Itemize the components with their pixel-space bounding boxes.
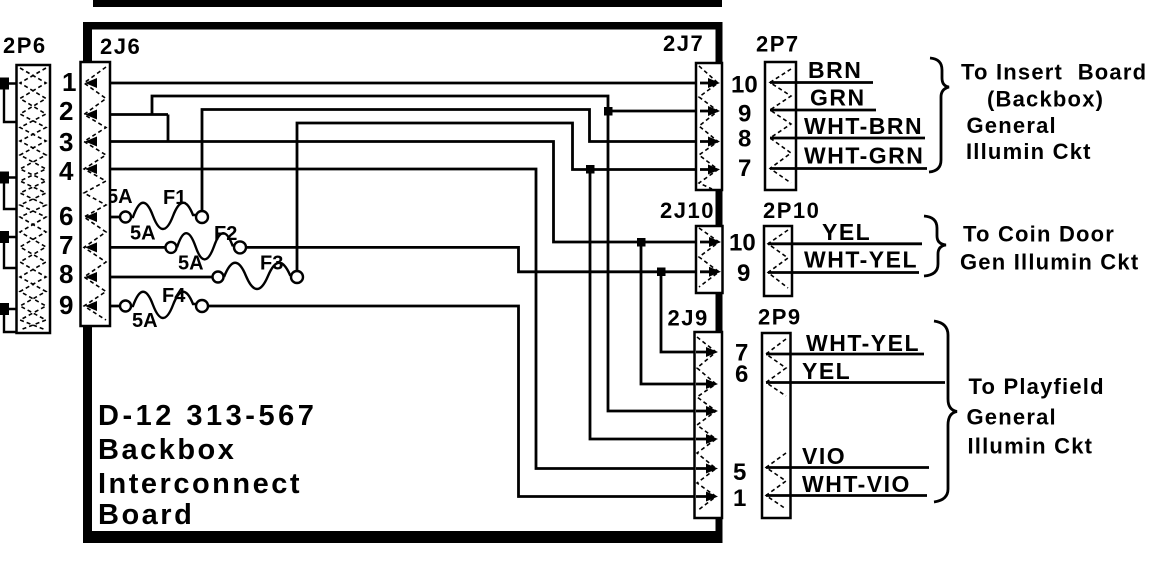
junction dot at 641,242 bbox=[637, 238, 646, 247]
svg-text:GRN: GRN bbox=[810, 85, 866, 111]
svg-text:WHT-YEL: WHT-YEL bbox=[806, 330, 920, 356]
fuse F4 circuit: 2J6 pin9 wire bbox=[86, 292, 714, 497]
junction dot at 608,111 bbox=[604, 107, 613, 116]
svg-text:VIO: VIO bbox=[802, 443, 846, 469]
svg-text:5A: 5A bbox=[130, 223, 156, 245]
2P7 wire GRN bbox=[770, 109, 876, 112]
2J6 pin2 arrow bbox=[85, 110, 97, 120]
svg-text:2J9: 2J9 bbox=[668, 306, 709, 331]
2J9 pin1 arrow bbox=[706, 492, 718, 502]
svg-text:Backbox: Backbox bbox=[98, 434, 236, 466]
svg-text:WHT-YEL: WHT-YEL bbox=[804, 247, 918, 273]
2J9 arrow mid1 bbox=[706, 406, 718, 416]
svg-text:2: 2 bbox=[59, 96, 73, 126]
2J10 pin10 arrow bbox=[709, 237, 721, 247]
2P6 wire stub square 2 bbox=[0, 172, 17, 210]
2J9 pin6 arrow bbox=[706, 379, 718, 389]
2J6 pin4 arrow bbox=[85, 164, 97, 174]
svg-text:YEL: YEL bbox=[822, 219, 871, 245]
2J10 pin9 arrow bbox=[709, 267, 721, 277]
2J7 pin8 arrow bbox=[708, 137, 720, 147]
2J9 pin5 arrow bbox=[706, 464, 718, 474]
svg-text:4: 4 bbox=[59, 156, 74, 186]
brace for insert board group bbox=[929, 58, 949, 172]
svg-text:7: 7 bbox=[738, 155, 751, 182]
2P6 wire stub square 4 bbox=[0, 303, 17, 332]
connector 2J6 bbox=[81, 62, 111, 326]
connector 2J9 bbox=[695, 332, 723, 518]
svg-text:BRN: BRN bbox=[808, 57, 862, 83]
2P10 wire WHT-YEL bbox=[768, 271, 919, 274]
svg-text:10: 10 bbox=[729, 230, 756, 257]
fuse F1 circuit: 2J6 pin6 wire bbox=[86, 110, 716, 230]
svg-text:2P9: 2P9 bbox=[758, 305, 802, 330]
board label text bbox=[98, 400, 317, 531]
svg-text:9: 9 bbox=[737, 260, 750, 287]
svg-text:Board: Board bbox=[98, 499, 194, 531]
svg-text:5: 5 bbox=[733, 459, 746, 486]
junction dot at 590,169.5 bbox=[586, 165, 595, 174]
brace for coin door group bbox=[924, 216, 946, 276]
connector 2P7 bbox=[765, 62, 796, 190]
svg-text:2P7: 2P7 bbox=[756, 32, 800, 57]
svg-text:9: 9 bbox=[59, 290, 73, 320]
svg-text:General: General bbox=[967, 405, 1057, 430]
svg-text:8: 8 bbox=[59, 259, 73, 289]
svg-text:F3: F3 bbox=[260, 253, 283, 275]
2J9 pin7 arrow bbox=[706, 347, 718, 357]
2J6 pin3 arrow bbox=[85, 137, 97, 147]
svg-text:Interconnect: Interconnect bbox=[98, 468, 302, 500]
svg-text:6: 6 bbox=[735, 361, 748, 388]
wire net N2: 2J6 pin2 jog to 2J7 pin9 and 2J9 bbox=[86, 96, 716, 411]
svg-text:2J7: 2J7 bbox=[663, 31, 704, 56]
svg-text:WHT-GRN: WHT-GRN bbox=[804, 143, 924, 169]
svg-text:F1: F1 bbox=[163, 187, 186, 209]
svg-text:2J10: 2J10 bbox=[660, 198, 715, 223]
wire net N3: 2J6 pin3 to 2J10 pin10 and 2J9 pin6 bbox=[86, 142, 717, 385]
2P9 wire WHT-YEL bbox=[766, 353, 924, 356]
junction dot at 661,271.8 bbox=[657, 268, 666, 277]
2P7 wire WHT-GRN bbox=[770, 167, 927, 170]
svg-text:1: 1 bbox=[62, 67, 76, 97]
2P7 wire WHT-BRN bbox=[770, 137, 925, 140]
svg-text:Illumin Ckt: Illumin Ckt bbox=[968, 434, 1094, 459]
svg-text:5A: 5A bbox=[178, 253, 204, 275]
2P7 wire BRN bbox=[770, 81, 873, 84]
2J6 pin number column bbox=[59, 67, 76, 320]
connector 2P6 bbox=[17, 65, 51, 333]
2J6 pin6 arrow bbox=[85, 212, 97, 222]
text To Coin Door bbox=[960, 222, 1139, 275]
2J7 pin10 arrow bbox=[708, 78, 720, 88]
svg-text:(Backbox): (Backbox) bbox=[987, 87, 1104, 112]
wire net N4: 2J6 pin4 to 2J9 pin5 bbox=[86, 169, 714, 469]
svg-text:YEL: YEL bbox=[802, 358, 851, 384]
svg-text:7: 7 bbox=[59, 230, 73, 260]
fuse F3 circuit: 2J6 pin8 wire bbox=[86, 123, 716, 439]
svg-text:F2: F2 bbox=[214, 223, 237, 245]
2J7 pin9 arrow bbox=[708, 106, 720, 116]
2P9 wire VIO bbox=[766, 466, 929, 469]
wire net N1: 2J6 pin1 to 2J7 pin10 bbox=[86, 82, 716, 85]
svg-text:D-12 313-567: D-12 313-567 bbox=[98, 400, 317, 432]
2P6 wire stub square 3 bbox=[0, 231, 17, 268]
fuse F2 circuit: 2J6 pin7 wire bbox=[86, 233, 717, 352]
svg-text:8: 8 bbox=[738, 126, 751, 153]
svg-text:10: 10 bbox=[731, 72, 758, 99]
2J7 pin numbers bbox=[731, 72, 758, 183]
connector 2P10 bbox=[764, 226, 792, 296]
connector 2J10 bbox=[696, 226, 723, 293]
svg-text:2P6: 2P6 bbox=[3, 33, 47, 58]
2J9 arrow mid2 bbox=[706, 434, 718, 444]
2J6 pin1 arrow bbox=[85, 78, 97, 88]
top border bar of page bbox=[93, 0, 722, 7]
svg-text:WHT-BRN: WHT-BRN bbox=[804, 113, 923, 139]
connector 2J7 bbox=[696, 63, 722, 190]
svg-text:1: 1 bbox=[733, 485, 746, 512]
2J7 pin7 arrow bbox=[708, 165, 720, 175]
svg-text:Illumin Ckt: Illumin Ckt bbox=[966, 139, 1092, 164]
2P9 wire YEL bbox=[766, 381, 945, 384]
2J9 pin numbers bbox=[733, 340, 748, 513]
svg-text:Gen Illumin Ckt: Gen Illumin Ckt bbox=[960, 250, 1139, 275]
svg-text:WHT-VIO: WHT-VIO bbox=[802, 471, 911, 497]
svg-text:To Insert Board: To Insert Board bbox=[961, 60, 1147, 85]
2P10 wire YEL bbox=[768, 242, 922, 245]
svg-text:To Coin Door: To Coin Door bbox=[963, 222, 1115, 247]
2P6 wire stub square 1 bbox=[0, 78, 17, 123]
connector 2P9 bbox=[762, 333, 791, 518]
svg-text:6: 6 bbox=[59, 201, 73, 231]
text To Playfield bbox=[967, 374, 1105, 459]
svg-text:5A: 5A bbox=[132, 310, 158, 332]
2J10 pin numbers bbox=[729, 230, 756, 288]
svg-text:3: 3 bbox=[59, 127, 73, 157]
2J6 pin9 arrow bbox=[85, 301, 97, 311]
text To Insert Board bbox=[961, 60, 1147, 165]
brace for playfield group bbox=[934, 321, 957, 502]
2J6 pin8 arrow bbox=[85, 272, 97, 282]
2P9 wire WHT-VIO bbox=[766, 494, 927, 497]
svg-text:2P10: 2P10 bbox=[763, 198, 820, 223]
svg-text:9: 9 bbox=[738, 101, 751, 128]
svg-text:2J6: 2J6 bbox=[100, 34, 141, 59]
svg-text:General: General bbox=[967, 113, 1057, 138]
board outline D-12313-567 bbox=[83, 22, 723, 543]
2J6 pin7 arrow bbox=[85, 242, 97, 252]
svg-text:F4: F4 bbox=[162, 285, 186, 307]
svg-text:To Playfield: To Playfield bbox=[969, 374, 1105, 399]
